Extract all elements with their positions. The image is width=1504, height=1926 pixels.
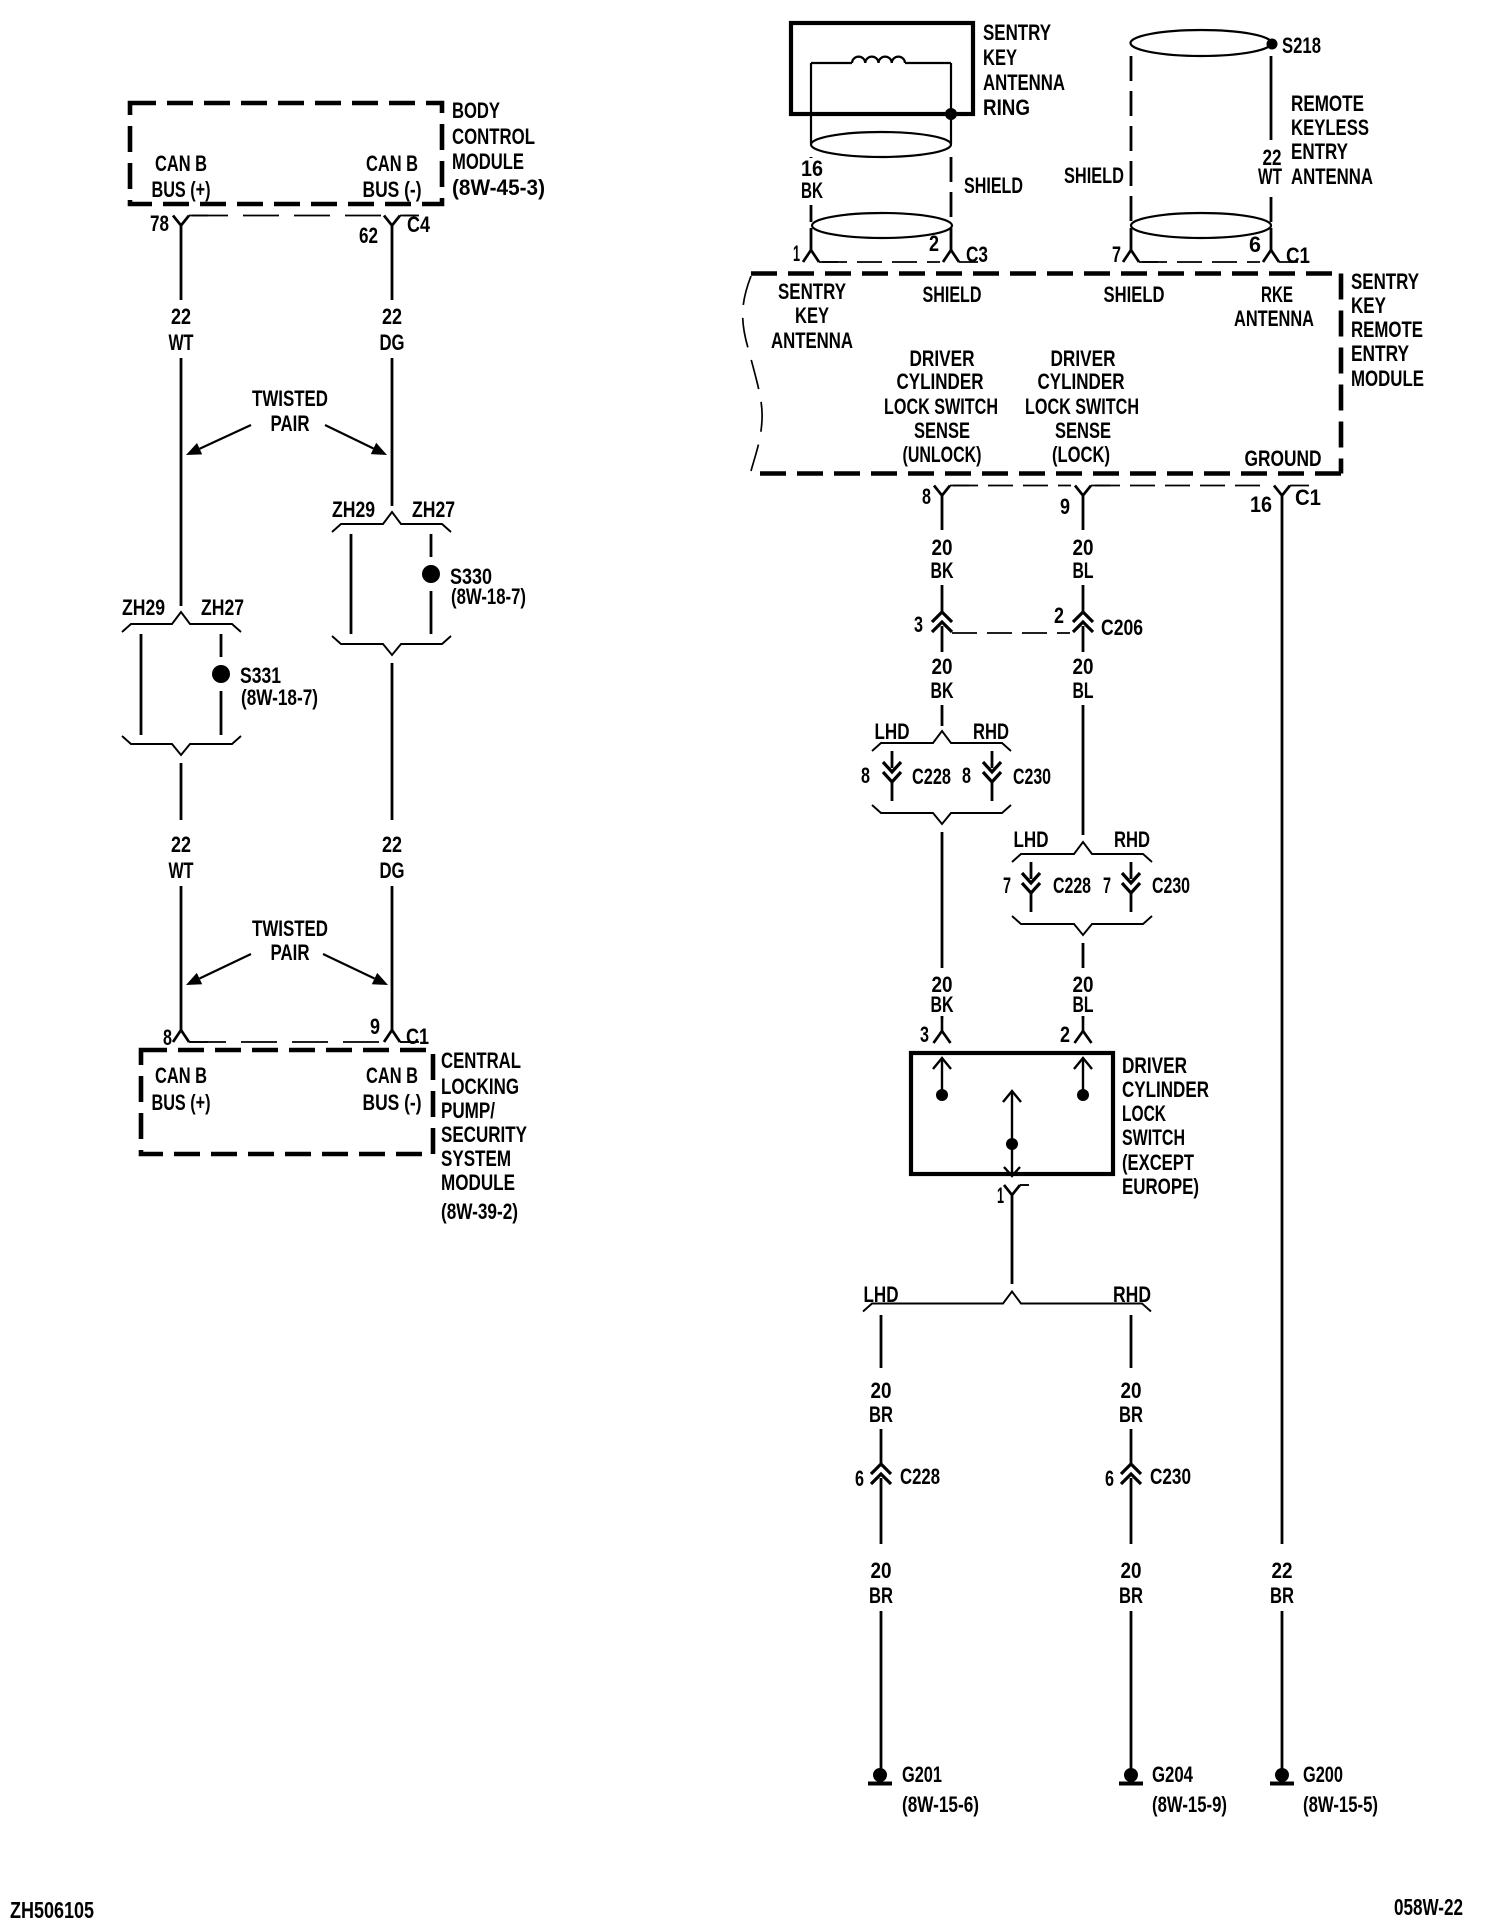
svg-text:CYLINDER: CYLINDER bbox=[1038, 369, 1125, 394]
connector C228 label (pin6) bbox=[900, 1464, 940, 1489]
svg-text:20: 20 bbox=[871, 1558, 892, 1583]
svg-text:CYLINDER: CYLINDER bbox=[897, 369, 984, 394]
connector C230 label (group 2) bbox=[1152, 873, 1190, 898]
svg-text:BK: BK bbox=[931, 992, 954, 1017]
value label 20 BR (LHD upper) bbox=[869, 1378, 893, 1427]
svg-text:C1: C1 bbox=[1295, 485, 1321, 510]
connector C230 pin6 symbol bbox=[1121, 1464, 1141, 1488]
label ZH29 (right group) bbox=[332, 497, 375, 522]
pin label DRIVER CYLINDER LOCK SWITCH SENSE (UNLOCK) bbox=[884, 346, 998, 467]
svg-text:ZH27: ZH27 bbox=[412, 497, 455, 522]
svg-text:1: 1 bbox=[793, 241, 800, 266]
svg-text:16: 16 bbox=[1250, 492, 1272, 517]
svg-text:LOCK SWITCH: LOCK SWITCH bbox=[884, 394, 998, 419]
svg-text:ZH506105: ZH506105 bbox=[10, 1897, 94, 1923]
wire 22DG below S330 bbox=[391, 663, 394, 820]
shield ellipse lower (sentry key antenna) bbox=[812, 213, 952, 238]
value label 22 WT (lower left) bbox=[169, 832, 194, 883]
svg-text:C230: C230 bbox=[1150, 1464, 1191, 1489]
label RHD (group 1) bbox=[973, 719, 1009, 744]
svg-text:PAIR: PAIR bbox=[271, 940, 310, 965]
label RHD (group 2) bbox=[1114, 827, 1150, 852]
wire shield drain (dashed, RKE) bbox=[1130, 56, 1133, 222]
wire 16BK segment bbox=[810, 157, 813, 158]
wire 20BK to LHD/RHD brace bbox=[941, 705, 944, 726]
svg-text:REMOTE: REMOTE bbox=[1291, 91, 1364, 116]
label SHIELD (sentry drain) bbox=[964, 173, 1023, 198]
svg-text:LOCKING: LOCKING bbox=[441, 1074, 519, 1099]
connector C228 pin7 symbol bbox=[1022, 862, 1040, 912]
svg-text:C1: C1 bbox=[1286, 243, 1310, 268]
wire 22DG into CLPSSM bbox=[391, 886, 394, 1030]
svg-text:(8W-15-5): (8W-15-5) bbox=[1303, 1792, 1378, 1817]
shield ellipse upper (sentry key antenna) bbox=[811, 132, 951, 157]
svg-text:8: 8 bbox=[861, 763, 870, 788]
value label 20 BR (RHD lower) bbox=[1119, 1558, 1143, 1608]
value label 16 BK bbox=[801, 156, 823, 203]
svg-text:8: 8 bbox=[163, 1025, 172, 1050]
pin 7 label (C1) bbox=[1112, 242, 1121, 267]
branch brace LHD/RHD top (group 2) bbox=[1012, 842, 1152, 862]
svg-text:(UNLOCK): (UNLOCK) bbox=[903, 442, 982, 467]
svg-text:ENTRY: ENTRY bbox=[1291, 139, 1348, 164]
wire 22BR to ground bbox=[1281, 1611, 1284, 1769]
svg-text:SHIELD: SHIELD bbox=[1064, 163, 1124, 188]
svg-text:C206: C206 bbox=[1101, 615, 1143, 640]
wire 20BR LHD upper bbox=[880, 1315, 883, 1368]
svg-text:BK: BK bbox=[801, 178, 823, 203]
value label 22 WT (upper left) bbox=[169, 304, 194, 355]
label S218 bbox=[1282, 33, 1321, 58]
svg-text:BL: BL bbox=[1073, 992, 1094, 1017]
value label 22 BR bbox=[1270, 1558, 1294, 1608]
svg-text:CAN B: CAN B bbox=[366, 1063, 418, 1088]
wire 20BK to C206 bbox=[941, 585, 944, 612]
wire 20BR RHD to C230 bbox=[1130, 1429, 1133, 1464]
pin 8 label (C228) bbox=[861, 763, 870, 788]
wire 22WT BCM pin78 upper segment bbox=[180, 226, 183, 301]
svg-text:20: 20 bbox=[1121, 1558, 1142, 1583]
svg-text:22: 22 bbox=[382, 832, 402, 857]
svg-text:BUS (+): BUS (+) bbox=[152, 1090, 211, 1115]
branch brace LHD/RHD top (group 1) bbox=[872, 731, 1011, 751]
svg-text:LHD: LHD bbox=[864, 1282, 899, 1307]
wire 20BK to switch pin 3 bbox=[941, 1016, 944, 1019]
svg-text:C230: C230 bbox=[1152, 873, 1190, 898]
svg-text:BL: BL bbox=[1073, 558, 1094, 583]
value label 20 BK (upper) bbox=[931, 535, 954, 583]
pin 1 label (C3) bbox=[793, 241, 800, 266]
wire coil right lead bbox=[905, 63, 951, 144]
connector C1 label (top) bbox=[1286, 243, 1310, 268]
connector C1 line (bottom right) bbox=[1095, 485, 1270, 487]
svg-text:2: 2 bbox=[929, 231, 939, 256]
svg-text:BK: BK bbox=[931, 558, 954, 583]
note TWISTED PAIR (upper) bbox=[252, 386, 328, 436]
svg-text:BUS (-): BUS (-) bbox=[363, 177, 422, 202]
footer ZH506105 bbox=[10, 1897, 94, 1923]
pin 3 label (C206) bbox=[914, 612, 923, 637]
pin label SHIELD inside SKREEM (left) bbox=[923, 282, 982, 307]
shield ellipse lower (RKE antenna) bbox=[1131, 213, 1271, 238]
pin 3 label (switch) bbox=[920, 1022, 929, 1047]
svg-text:22: 22 bbox=[171, 304, 191, 329]
svg-text:SENSE: SENSE bbox=[914, 418, 970, 443]
shield ellipse upper (RKE antenna) bbox=[1131, 30, 1272, 56]
svg-text:2: 2 bbox=[1054, 603, 1064, 628]
svg-text:G200: G200 bbox=[1303, 1762, 1343, 1787]
svg-text:BL: BL bbox=[1073, 678, 1094, 703]
svg-text:SWITCH: SWITCH bbox=[1122, 1125, 1185, 1150]
label ZH29 (left group) bbox=[122, 595, 165, 620]
connector C1 label (bottom) bbox=[1295, 485, 1321, 510]
pin 6 label (C1) bbox=[1249, 232, 1261, 257]
svg-text:BODY: BODY bbox=[452, 98, 500, 123]
connector C1 label (CLPSSM) bbox=[406, 1024, 429, 1049]
label DRIVER CYLINDER LOCK SWITCH (EXCEPT EUROPE) bbox=[1122, 1053, 1209, 1199]
wire 20BK below group 1 bbox=[941, 832, 944, 968]
wire 20BL from SKREEM pin9 bbox=[1082, 496, 1085, 531]
connector C1 line at CLPSSM bbox=[190, 1041, 412, 1043]
svg-text:WT: WT bbox=[169, 330, 194, 355]
svg-text:BR: BR bbox=[1119, 1583, 1143, 1608]
svg-text:KEY: KEY bbox=[983, 45, 1017, 70]
svg-text:6: 6 bbox=[1105, 1466, 1114, 1491]
svg-text:ENTRY: ENTRY bbox=[1351, 341, 1409, 366]
switch contact unlock (left) bbox=[933, 1058, 951, 1101]
arrow to left wire (lower twisted pair) bbox=[186, 954, 251, 985]
svg-text:C228: C228 bbox=[900, 1464, 940, 1489]
svg-text:(8W-18-7): (8W-18-7) bbox=[241, 685, 318, 710]
arrow to right wire (lower twisted pair) bbox=[323, 954, 388, 985]
svg-text:22: 22 bbox=[382, 304, 402, 329]
svg-text:(8W-15-9): (8W-15-9) bbox=[1152, 1792, 1227, 1817]
svg-text:RHD: RHD bbox=[973, 719, 1009, 744]
svg-text:BK: BK bbox=[931, 678, 954, 703]
svg-text:20: 20 bbox=[1121, 1378, 1142, 1403]
svg-text:S218: S218 bbox=[1282, 33, 1321, 58]
connector C230 label (pin6) bbox=[1150, 1464, 1191, 1489]
label S330 (8W-18-7) bbox=[450, 564, 526, 609]
splice group S331 brace bottom bbox=[122, 736, 241, 755]
wire 20BR RHD below C230 bbox=[1130, 1488, 1133, 1544]
svg-text:KEY: KEY bbox=[1351, 293, 1386, 318]
svg-text:LHD: LHD bbox=[875, 719, 910, 744]
wire 20BR RHD upper bbox=[1130, 1315, 1133, 1368]
svg-text:BR: BR bbox=[869, 1402, 893, 1427]
pin 78 label bbox=[150, 211, 169, 236]
svg-text:G201: G201 bbox=[902, 1762, 942, 1787]
pin 6 connector (C1) bbox=[1263, 250, 1298, 262]
svg-text:ANTENNA: ANTENNA bbox=[1234, 306, 1314, 331]
pin 8 connector at CLPSSM bbox=[173, 1030, 208, 1042]
pin 6 stem (C1) bbox=[1270, 228, 1273, 250]
pin 7 label (C228) bbox=[1003, 873, 1011, 898]
label RHD (switch output) bbox=[1113, 1282, 1151, 1307]
value label 22 DG (upper right) bbox=[380, 304, 405, 355]
pin 16 connector at SKREEM bbox=[1274, 486, 1309, 496]
svg-text:PAIR: PAIR bbox=[271, 411, 310, 436]
svg-text:WT: WT bbox=[169, 858, 194, 883]
wire ZH29 branch of S330 bbox=[350, 534, 353, 634]
svg-text:SENTRY: SENTRY bbox=[983, 20, 1051, 45]
wire 22WT segment to splice S331 bbox=[180, 358, 183, 606]
footer 058W-22 bbox=[1394, 1894, 1463, 1920]
connector C228 label (group 2) bbox=[1053, 873, 1091, 898]
pin 3 connector at switch bbox=[934, 1019, 951, 1043]
pin 9 label (SKREEM) bbox=[1060, 494, 1070, 519]
ground G204 label bbox=[1152, 1762, 1227, 1817]
svg-text:DG: DG bbox=[380, 330, 405, 355]
module U1 BODY CONTROL MODULE box bbox=[130, 103, 442, 204]
label REMOTE KEYLESS ENTRY ANTENNA bbox=[1291, 91, 1373, 189]
svg-text:MODULE: MODULE bbox=[441, 1170, 515, 1195]
value label 20 BL (mid) bbox=[1073, 654, 1094, 703]
pin 62 connector at BCM bbox=[384, 216, 419, 226]
pin 2 connector (C3) bbox=[943, 250, 978, 262]
pin label CAN B BUS (+) inside BCM bbox=[152, 151, 211, 202]
value label 20 BR (RHD upper) bbox=[1119, 1378, 1143, 1427]
pin 6 label (C230) bbox=[1105, 1466, 1114, 1491]
svg-text:SHIELD: SHIELD bbox=[1104, 282, 1165, 307]
pin 2 stem (C3) bbox=[950, 228, 953, 250]
branch brace LHD/RHD (switch output) bbox=[863, 1292, 1151, 1312]
svg-text:SENSE: SENSE bbox=[1055, 418, 1111, 443]
pin 7 label (C230) bbox=[1103, 873, 1111, 898]
svg-text:20: 20 bbox=[932, 535, 953, 560]
pin 1 stem (C3) bbox=[810, 228, 813, 250]
ground G200 label bbox=[1303, 1762, 1378, 1817]
value label 20 BL (lower) bbox=[1073, 972, 1094, 1017]
svg-text:RING: RING bbox=[983, 95, 1030, 120]
svg-text:CONTROL: CONTROL bbox=[452, 124, 535, 149]
svg-text:ANTENNA: ANTENNA bbox=[1291, 164, 1373, 189]
svg-text:9: 9 bbox=[1060, 494, 1070, 519]
label BODY CONTROL MODULE (8W-45-3) bbox=[452, 98, 545, 200]
pin 8 label (CLPSSM) bbox=[163, 1025, 172, 1050]
svg-text:BR: BR bbox=[869, 1583, 893, 1608]
svg-text:(8W-18-7): (8W-18-7) bbox=[451, 584, 526, 609]
pin label SHIELD inside SKREEM (right) bbox=[1104, 282, 1165, 307]
splice S218 dot bbox=[1267, 39, 1278, 50]
svg-text:(8W-45-3): (8W-45-3) bbox=[452, 175, 545, 200]
wire ZH27 branch of S331 (dashed) bbox=[220, 634, 223, 735]
wire 22DG segment to splice S330 bbox=[391, 358, 394, 506]
connector C228 label (group 1) bbox=[912, 764, 951, 789]
svg-text:20: 20 bbox=[932, 654, 953, 679]
value label 20 BL (upper) bbox=[1073, 535, 1094, 583]
pin 2 connector at switch bbox=[1075, 1019, 1092, 1043]
wire coil left lead bbox=[811, 63, 852, 144]
pin label GROUND inside SKREEM bbox=[1245, 446, 1322, 471]
connector C230 pin8 symbol bbox=[983, 751, 1001, 801]
svg-text:C1: C1 bbox=[406, 1024, 429, 1049]
svg-text:CAN B: CAN B bbox=[155, 1063, 207, 1088]
svg-text:(LOCK): (LOCK) bbox=[1052, 442, 1110, 467]
connector C228 pin6 symbol bbox=[871, 1464, 891, 1488]
ground G204 symbol bbox=[1119, 1768, 1143, 1784]
value label 20 BK (mid) bbox=[931, 654, 954, 703]
svg-text:20: 20 bbox=[871, 1378, 892, 1403]
label S331 (8W-18-7) bbox=[240, 663, 318, 710]
svg-text:ANTENNA: ANTENNA bbox=[983, 70, 1065, 95]
svg-text:62: 62 bbox=[359, 223, 378, 248]
wire 20BR LHD to C228 bbox=[880, 1429, 883, 1464]
svg-text:BUS (-): BUS (-) bbox=[363, 1090, 422, 1115]
svg-text:6: 6 bbox=[1249, 232, 1261, 257]
pin 1 connector at switch bbox=[1004, 1185, 1029, 1195]
svg-text:C228: C228 bbox=[1053, 873, 1091, 898]
wire from switch pin 1 bbox=[1011, 1195, 1014, 1284]
connector C206 link line bbox=[952, 632, 1070, 634]
pin label RKE ANTENNA inside SKREEM bbox=[1234, 282, 1314, 331]
pin 9 connector at SKREEM bbox=[1075, 486, 1110, 496]
module U3 SENTRY KEY REMOTE ENTRY MODULE box bbox=[743, 274, 1341, 474]
pin label SENTRY KEY ANTENNA inside SKREEM bbox=[771, 279, 853, 353]
svg-text:RHD: RHD bbox=[1113, 1282, 1151, 1307]
wire 20BL to switch pin 2 bbox=[1082, 1016, 1085, 1019]
svg-text:20: 20 bbox=[1073, 535, 1094, 560]
pin 62 label bbox=[359, 223, 378, 248]
svg-text:3: 3 bbox=[914, 612, 923, 637]
component sentry key antenna ring box bbox=[791, 23, 973, 114]
svg-text:TWISTED: TWISTED bbox=[252, 916, 328, 941]
label SENTRY KEY ANTENNA RING bbox=[983, 20, 1065, 120]
wire 20BL below group 2 bbox=[1082, 943, 1085, 968]
svg-text:8: 8 bbox=[962, 763, 971, 788]
svg-text:22: 22 bbox=[1272, 1558, 1293, 1583]
label CENTRAL LOCKING PUMP/SECURITY SYSTEM MODULE (8W-39-2) bbox=[441, 1048, 527, 1224]
ground G200 symbol bbox=[1270, 1768, 1294, 1784]
svg-text:PUMP/: PUMP/ bbox=[441, 1098, 495, 1123]
connector C230 label (group 1) bbox=[1013, 764, 1051, 789]
svg-text:MODULE: MODULE bbox=[1351, 366, 1424, 391]
wire 16BK to shield ellipse bbox=[810, 205, 813, 222]
svg-text:WT: WT bbox=[1258, 164, 1282, 189]
pin 78 connector at BCM bbox=[173, 216, 208, 226]
svg-text:7: 7 bbox=[1103, 873, 1111, 898]
label SHIELD (RKE drain) bbox=[1064, 163, 1124, 188]
svg-text:SECURITY: SECURITY bbox=[441, 1122, 527, 1147]
wire shield drain (dashed, sentry) bbox=[950, 157, 953, 222]
pin 8 connector at SKREEM bbox=[934, 486, 969, 496]
connector C206 pin3 symbol bbox=[932, 612, 952, 636]
svg-text:GROUND: GROUND bbox=[1245, 446, 1322, 471]
wire 22DG BCM pin62 upper segment bbox=[391, 226, 394, 301]
value label 22 WT (RKE) bbox=[1258, 145, 1282, 189]
wire 20BR RHD to ground bbox=[1130, 1611, 1133, 1769]
connector C1 line (top) bbox=[1142, 261, 1260, 263]
connector C206 pin2 symbol bbox=[1073, 612, 1093, 636]
wire 22WT into CLPSSM bbox=[180, 886, 183, 1030]
svg-text:SHIELD: SHIELD bbox=[964, 173, 1023, 198]
pin 16 label (SKREEM) bbox=[1250, 492, 1272, 517]
svg-text:SHIELD: SHIELD bbox=[923, 282, 982, 307]
svg-text:(8W-15-6): (8W-15-6) bbox=[902, 1792, 979, 1817]
connector C206 label bbox=[1101, 615, 1143, 640]
pin label CAN B BUS (-) inside CLPSSM bbox=[363, 1063, 422, 1115]
svg-text:22: 22 bbox=[171, 832, 191, 857]
arrow to right wire (upper twisted pair) bbox=[325, 425, 387, 455]
wire 20BL below C206 bbox=[1082, 636, 1085, 652]
wire 20BK below C206 bbox=[941, 636, 944, 652]
svg-text:C4: C4 bbox=[407, 212, 431, 237]
svg-text:CYLINDER: CYLINDER bbox=[1122, 1077, 1209, 1102]
pin 8 label (C230) bbox=[962, 763, 971, 788]
pin label DRIVER CYLINDER LOCK SWITCH SENSE (LOCK) bbox=[1025, 346, 1139, 467]
svg-text:SENTRY: SENTRY bbox=[778, 279, 846, 304]
wire 22WT RKE upper segment bbox=[1270, 56, 1273, 140]
svg-text:C228: C228 bbox=[912, 764, 951, 789]
svg-text:MODULE: MODULE bbox=[452, 149, 524, 174]
svg-text:RKE: RKE bbox=[1261, 282, 1293, 307]
svg-text:ZH29: ZH29 bbox=[122, 595, 165, 620]
branch brace LHD/RHD bottom (group 1) bbox=[872, 805, 1011, 824]
pin 2 label (C3) bbox=[929, 231, 939, 256]
value label 22 DG (lower right) bbox=[380, 832, 405, 883]
svg-text:CENTRAL: CENTRAL bbox=[441, 1048, 521, 1073]
svg-text:SYSTEM: SYSTEM bbox=[441, 1146, 511, 1171]
connector C4 line at BCM bbox=[192, 215, 417, 217]
svg-text:BR: BR bbox=[1119, 1402, 1143, 1427]
svg-text:DRIVER: DRIVER bbox=[1051, 346, 1116, 371]
pin 2 label (switch) bbox=[1060, 1022, 1070, 1047]
module U2 CENTRAL LOCKING PUMP/SECURITY SYSTEM MODULE box bbox=[141, 1050, 433, 1154]
wire 20BL to C206 bbox=[1082, 585, 1085, 612]
wire 20BR LHD below C228 bbox=[880, 1488, 883, 1544]
pin 1 connector (C3) bbox=[803, 250, 838, 262]
svg-text:EUROPE): EUROPE) bbox=[1122, 1174, 1199, 1199]
inductor coil L1 in antenna ring bbox=[852, 57, 905, 63]
connector C3 label bbox=[966, 242, 988, 267]
svg-text:7: 7 bbox=[1112, 242, 1121, 267]
svg-text:TWISTED: TWISTED bbox=[252, 386, 328, 411]
wire 22WT below S331 bbox=[180, 763, 183, 820]
label ZH27 (left group) bbox=[201, 595, 244, 620]
label ZH27 (right group) bbox=[412, 497, 455, 522]
svg-text:1: 1 bbox=[997, 1183, 1004, 1208]
svg-text:DRIVER: DRIVER bbox=[1122, 1053, 1187, 1078]
switch common contact (middle) bbox=[1003, 1091, 1021, 1176]
svg-text:(EXCEPT: (EXCEPT bbox=[1122, 1150, 1194, 1175]
svg-text:CAN B: CAN B bbox=[155, 151, 207, 176]
ground G201 symbol bbox=[868, 1768, 892, 1784]
wire ZH29 branch of S331 bbox=[140, 634, 143, 735]
connector C228 pin8 symbol bbox=[883, 751, 901, 801]
svg-text:058W-22: 058W-22 bbox=[1394, 1894, 1463, 1920]
svg-text:ANTENNA: ANTENNA bbox=[771, 328, 853, 353]
label LHD (switch output) bbox=[864, 1282, 899, 1307]
svg-text:CAN B: CAN B bbox=[366, 151, 418, 176]
switch S1 DRIVER CYLINDER LOCK SWITCH box bbox=[911, 1053, 1113, 1174]
svg-text:LOCK: LOCK bbox=[1122, 1101, 1166, 1126]
connector C3 line bbox=[822, 261, 940, 263]
wire 20BK from SKREEM pin8 bbox=[941, 496, 944, 531]
svg-text:LOCK SWITCH: LOCK SWITCH bbox=[1025, 394, 1139, 419]
svg-text:78: 78 bbox=[150, 211, 169, 236]
svg-text:BUS (+): BUS (+) bbox=[152, 177, 211, 202]
label SENTRY KEY REMOTE ENTRY MODULE bbox=[1351, 269, 1424, 391]
svg-text:ZH27: ZH27 bbox=[201, 595, 244, 620]
svg-text:20: 20 bbox=[1073, 654, 1094, 679]
splice group S331 harness brace top (ZH29/ZH27) bbox=[122, 612, 241, 632]
pin label CAN B BUS (-) inside BCM bbox=[363, 151, 422, 202]
svg-text:G204: G204 bbox=[1152, 1762, 1194, 1787]
pin 2 label (C206) bbox=[1054, 603, 1064, 628]
wire 22WT RKE to shield ellipse bbox=[1270, 197, 1273, 222]
pin 8 label (SKREEM) bbox=[922, 484, 931, 509]
wire ZH27 branch of S330 (dashed) bbox=[430, 534, 433, 634]
